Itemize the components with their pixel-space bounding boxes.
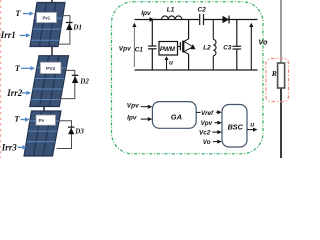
BSC block — [222, 105, 247, 148]
bypass diode loop D2 wires — [54, 70, 75, 98]
diode D2 — [72, 75, 79, 83]
svg-text:GA: GA — [171, 113, 182, 122]
svg-text:C1: C1 — [135, 47, 144, 54]
svg-text:Irr3: Irr3 — [1, 142, 18, 152]
svg-text:PWM: PWM — [160, 46, 176, 53]
bypass diode loop D1 wires — [58, 16, 70, 44]
transistor body diode arrow — [190, 44, 195, 49]
GA block — [152, 102, 196, 129]
PV panel PV1 — [30, 3, 65, 47]
svg-text:Vc2: Vc2 — [199, 130, 211, 137]
capacitor C2 (series) — [200, 14, 204, 25]
svg-text:Vpv: Vpv — [119, 46, 131, 53]
svg-text:D2: D2 — [79, 77, 89, 85]
node Vo measurement arrow — [249, 23, 253, 70]
transistor Q (IGBT switch with body diode) — [178, 39, 189, 54]
load wire lower segment — [280, 87, 282, 158]
svg-text:R: R — [271, 69, 277, 78]
capacitor C1 branch — [148, 20, 157, 71]
arrow Vref -> BSC — [216, 110, 222, 114]
u input arrow to PWM — [165, 56, 169, 70]
svg-text:PV2: PV2 — [46, 66, 55, 72]
arrow Vpv -> GA — [141, 105, 153, 109]
load wire upper segment (gray) — [280, 0, 282, 64]
arrow Vc2 -> BSC — [212, 130, 222, 134]
arrow Vpv -> BSC — [215, 121, 222, 125]
svg-text:C3: C3 — [223, 45, 232, 52]
wire GA -> BSC (Vref) — [196, 111, 200, 113]
svg-text:Pv1: Pv1 — [42, 15, 50, 20]
svg-text:D3: D3 — [74, 128, 84, 136]
blue arrow Irr1 -> PV1 — [20, 33, 31, 37]
svg-text:L1: L1 — [167, 6, 175, 13]
svg-text:Pv: Pv — [39, 118, 45, 123]
svg-text:Irr1: Irr1 — [0, 30, 16, 40]
svg-text:L2: L2 — [203, 44, 211, 51]
wire between PV1 and PV2 — [51, 46, 53, 56]
red dashed border fragment at left image edge — [0, 0, 2, 158]
blue arrow T -> PV1 — [23, 11, 34, 15]
svg-text:Vpv: Vpv — [201, 120, 213, 127]
svg-text:BSC: BSC — [228, 123, 244, 132]
wire series string above PV1 — [51, 0, 53, 3]
svg-text:Vo: Vo — [258, 37, 268, 46]
transistor white kite region — [184, 41, 193, 51]
svg-text:Ipv: Ipv — [127, 115, 137, 122]
svg-text:u: u — [169, 59, 173, 66]
green dash-dot converter boundary box — [112, 2, 264, 154]
blue arrow T -> PV2 — [21, 66, 35, 70]
svg-text:Vo: Vo — [203, 139, 211, 146]
arrow Vo -> BSC — [213, 140, 222, 144]
bottom rail wire — [135, 69, 258, 71]
resistor R — [278, 63, 285, 88]
wire between PV2 and PV3 — [43, 106, 45, 112]
blue arrow Irr2 -> PV2 — [22, 91, 31, 95]
blue arrow T -> PV3 — [21, 117, 30, 121]
svg-text:Irr2: Irr2 — [6, 88, 23, 98]
PWM block — [159, 42, 178, 56]
arrow u output — [247, 128, 258, 132]
svg-text:Vpv: Vpv — [127, 102, 139, 109]
svg-text:Ipv: Ipv — [141, 10, 151, 17]
svg-text:u: u — [250, 121, 254, 128]
diode D1 — [66, 23, 73, 31]
inductor L1 — [162, 16, 182, 20]
wire switch to top rail — [188, 20, 190, 40]
arrow Ipv -> GA — [141, 117, 153, 121]
node Vpv measurement arrow — [132, 23, 136, 67]
diode D3 — [68, 127, 74, 134]
svg-text:D1: D1 — [72, 23, 82, 31]
PV panel PV3 — [24, 111, 61, 156]
red dashed load boundary box — [266, 59, 289, 102]
capacitor C3 branch — [233, 20, 242, 71]
wire switch to bottom rail — [188, 54, 190, 70]
inductor L2 branch — [213, 20, 216, 71]
svg-text:Vref: Vref — [201, 110, 214, 117]
PV panel PV2 — [30, 56, 69, 107]
svg-text:C2: C2 — [198, 6, 207, 13]
top rail wire — [135, 19, 258, 21]
blue arrow Irr3 -> PV3 — [18, 145, 28, 149]
bypass diode loop D3 wires — [57, 121, 72, 149]
current arrow Ipv on rail — [150, 17, 155, 22]
diode (output) on top rail — [223, 16, 230, 24]
